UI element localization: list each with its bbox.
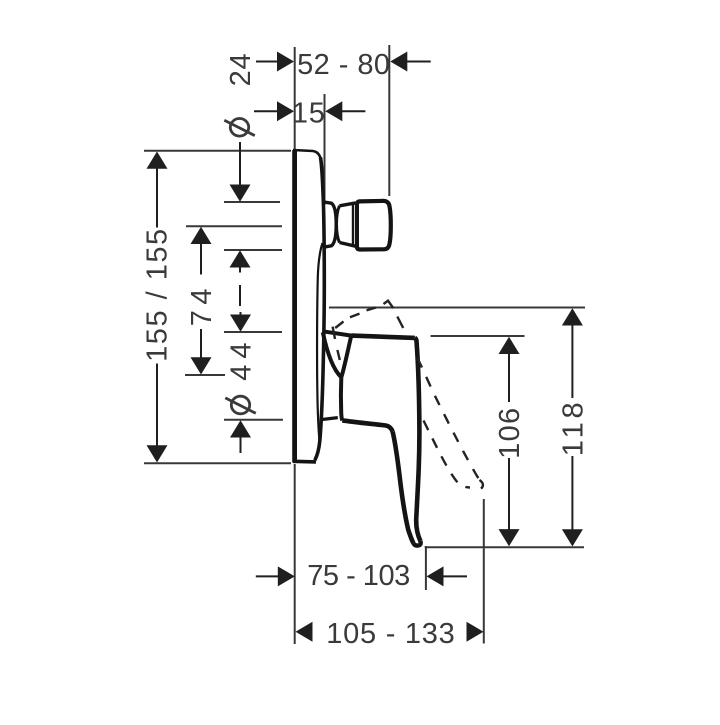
dimension 15	[254, 101, 365, 121]
reference line pivot center (74)	[185, 374, 225, 376]
lever grip left edge	[393, 432, 414, 544]
dimension 105 - 133	[296, 622, 484, 642]
svg-text:74: 74	[186, 283, 218, 326]
lever hub wedge lower edge	[323, 332, 342, 377]
extension line bottom left	[294, 464, 296, 644]
svg-text:44: 44	[226, 336, 258, 380]
reference line hub top (Ø44)	[224, 331, 282, 333]
extension line 15-right	[324, 94, 326, 205]
svg-text:15: 15	[292, 97, 326, 129]
dimension 106	[499, 337, 520, 547]
lever hub wedge top edge	[323, 331, 352, 335]
sleeve bottom edge	[321, 418, 338, 420]
spout stub cylinder/cap divider	[352, 203, 354, 245]
dimension 155 / 155	[147, 152, 168, 463]
reference line 155 top	[144, 150, 291, 152]
reference line 155 bottom	[144, 462, 291, 464]
dimension 52 - 80	[256, 52, 431, 72]
svg-text:105 - 133: 105 - 133	[326, 618, 455, 650]
lever body right edge and grip right edge	[415, 338, 421, 541]
dashed raised lever top edge	[335, 301, 393, 328]
svg-text:52 - 80: 52 - 80	[297, 49, 390, 81]
spout stub cylinder	[337, 206, 340, 243]
spout stub end cap	[357, 201, 391, 250]
escutcheon plate bottom edge	[293, 459, 316, 463]
dimension 74	[191, 227, 212, 375]
spout stub cone	[325, 202, 336, 247]
svg-text:106: 106	[494, 407, 526, 459]
dashed raised lever lower edge (lower visible part)	[424, 421, 471, 488]
dashed raised lever right edge (lower visible part)	[418, 358, 479, 479]
dashed raised lever right edge (upper visible part)	[397, 317, 403, 329]
dashed raised lever tip hook	[480, 480, 483, 489]
escutcheon plate top edge	[293, 150, 321, 158]
extension line lever tip	[425, 546, 427, 590]
dimension Ø 44	[230, 312, 251, 453]
dashed raised lever lower edge (upper visible part)	[333, 327, 340, 360]
reference line 118 top	[329, 307, 585, 309]
reference line 106 top	[431, 335, 525, 337]
extension line dashed-lever tip	[483, 499, 485, 644]
svg-text:75 - 103: 75 - 103	[307, 560, 409, 592]
lever grip tip	[413, 541, 420, 546]
reference line hub bottom (Ø44)	[224, 419, 283, 421]
escutcheon plate outer silhouette	[315, 158, 325, 461]
escutcheon plate inner contour	[317, 243, 322, 445]
lever body top edge	[351, 336, 415, 338]
dimension Ø 24 arrows	[230, 142, 251, 306]
svg-text:155 / 155: 155 / 155	[142, 227, 174, 361]
reference line stub centerline	[186, 225, 282, 227]
diameter symbol of Ø 24	[224, 119, 255, 137]
reference line stub bottom	[224, 249, 282, 251]
escutcheon plate front face	[292, 150, 297, 463]
svg-text:24: 24	[225, 53, 257, 87]
svg-text:118: 118	[557, 399, 589, 457]
reference line bottom	[425, 546, 584, 548]
dimension 118	[562, 308, 583, 546]
dimension 75 - 103	[256, 566, 467, 586]
extension line 52-80 right	[388, 45, 390, 196]
lever body bottom edge	[342, 420, 392, 431]
reference line stub top (Ø24)	[224, 201, 280, 203]
diameter symbol of Ø 44	[225, 396, 256, 414]
extension line top from plate front face	[294, 47, 296, 150]
lever body left edge	[341, 336, 351, 421]
